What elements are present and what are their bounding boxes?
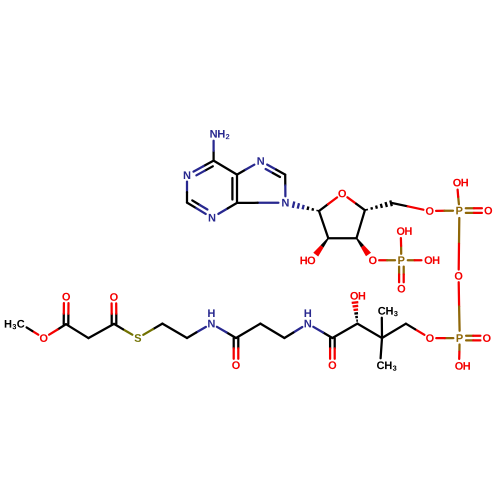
stereo bond C3'-O3' (solid wedge)	[356, 238, 371, 256]
atom label O (pyrophosphate bridge)	[455, 272, 463, 280]
atom label P3 (3'-phosphate)	[398, 256, 404, 264]
atom label S (thioester sulfur)	[134, 334, 141, 342]
atom label N3	[209, 214, 216, 222]
atom label P2 (beta phosphate)	[457, 334, 463, 342]
bond C9-N (amide)	[313, 327, 332, 338]
bond O4'-C4'	[347, 197, 365, 210]
bond C8-N9	[284, 175, 286, 197]
bond P2-OH	[458, 345, 461, 359]
atom label HO (2'-hydroxyl)	[300, 256, 315, 264]
bond P3-OH (top)	[400, 238, 403, 254]
atom label NH2 (adenine amine)	[210, 130, 229, 139]
atom label O (P2 double-bond O)	[483, 334, 491, 342]
atom label O (ester O)	[40, 334, 48, 342]
stereo bond C10-OH (hashed wedge)	[352, 302, 359, 321]
atom label NH (amide, right)	[305, 309, 312, 327]
bond C5-N7	[237, 165, 254, 175]
atom label H3C (methyl ester)	[5, 320, 25, 329]
bond N7=C8 (double)	[266, 165, 286, 177]
bond C5-C6	[214, 161, 237, 175]
bond C4=C5 (double)	[232, 175, 237, 203]
bond C3'-C2'	[328, 237, 356, 239]
bond N1-C2	[186, 182, 188, 203]
stereo bond C2'-OH (solid wedge)	[313, 238, 329, 257]
bond P1-OH	[458, 190, 459, 205]
bond C6=N1 (double)	[194, 161, 214, 176]
bond P3-OH (right)	[408, 259, 422, 261]
atom label N9	[282, 199, 289, 207]
bond P3=O (double)	[399, 267, 404, 283]
bond C5b-C4b	[162, 324, 187, 338]
bond C6-NH2 (amine)	[212, 141, 214, 161]
atom label O (amide carbonyl O, right)	[329, 361, 337, 369]
bond C1c-O (ester)	[49, 324, 66, 335]
atom label O (P1 double-bond O)	[484, 207, 492, 215]
bond N-C8a	[284, 327, 302, 338]
bond C5'-O5'	[392, 203, 423, 210]
bond S-C3c (thioester)	[114, 324, 132, 335]
bond C4'-C3'	[357, 210, 365, 238]
bond C7a-C6a	[236, 324, 260, 338]
bond C2c-C1c	[66, 324, 88, 338]
bond O3'-P3	[379, 259, 395, 261]
bond C3c=O (thioester carbonyl)	[112, 303, 117, 324]
atom label N7	[257, 157, 264, 165]
bond C3c-C2c	[88, 324, 114, 338]
bond N3-C4	[218, 203, 237, 214]
bond C8a-C7a	[260, 324, 284, 338]
bond C4b-S	[143, 324, 162, 335]
bond C10-C9	[332, 324, 357, 338]
atom label OH (P3 top)	[397, 227, 412, 235]
atom label O5'	[426, 207, 434, 215]
atom label OH (P1 top)	[453, 179, 468, 187]
bond C1'-O4'	[319, 197, 337, 211]
atom label OH (P2 bottom)	[455, 362, 470, 370]
atom label O3'	[369, 256, 377, 264]
bond C2'-C1'	[319, 211, 328, 238]
atom label P1 (alpha phosphate)	[456, 207, 462, 215]
bond O5''-C12	[406, 324, 425, 335]
bond C1c=O (ester carbonyl)	[64, 303, 69, 324]
atom label O (thioester carbonyl O)	[110, 293, 118, 301]
bond C11-C10	[357, 324, 382, 338]
atom label O5''	[426, 334, 434, 342]
stereo bond C4'-C5' (hashed wedge)	[367, 200, 392, 210]
atom label CH3 (gem-dimethyl bottom)	[377, 361, 396, 370]
atom label O4' (ribose ring O)	[338, 190, 346, 198]
atom label O (ester carbonyl O)	[62, 293, 70, 301]
bond C2=N3 (double)	[187, 200, 207, 214]
atom label CH3 (gem-dimethyl top)	[378, 307, 397, 316]
bond C6a-N (amide)	[217, 327, 236, 338]
bond P1-O (bridge)	[458, 218, 461, 270]
bond C11-CH3 (top methyl)	[381, 318, 383, 338]
bond N-C5b	[187, 327, 206, 338]
bond C9=O (amide carbonyl)	[330, 338, 335, 359]
atom label O (P3 double-bond O)	[398, 285, 406, 293]
bond P2=O (double)	[466, 336, 480, 341]
atom label NH (amide, left)	[208, 309, 215, 327]
bond C11-CH3 (bottom methyl)	[381, 338, 382, 358]
bond P1=O (double)	[466, 208, 482, 213]
bond O5'-P1	[436, 210, 453, 212]
bond C6a=O (amide carbonyl)	[234, 338, 239, 359]
atom label N1	[184, 171, 191, 179]
stereo bond N9-C1' (hashed wedge)	[293, 202, 318, 212]
atom label OH (pantoyl hydroxyl)	[350, 292, 365, 300]
bond C12-C11	[382, 324, 406, 338]
bond P2-O5''	[436, 337, 453, 339]
bond O-CH3 (methyl ester)	[27, 327, 39, 334]
bond O-P2 (bridge)	[458, 282, 461, 330]
atom label OH (P3 right)	[425, 256, 440, 264]
bond N9-C4 (ring closure)	[237, 202, 278, 204]
atom label O (amide carbonyl O, left)	[232, 361, 240, 369]
